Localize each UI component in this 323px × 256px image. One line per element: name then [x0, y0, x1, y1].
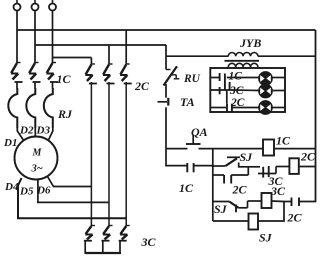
wire 2C-3C vertical b [108, 82, 110, 226]
wire L1 drop [16, 11, 18, 64]
wire control drop [165, 45, 167, 70]
wire rail L1 [17, 29, 316, 31]
contactor 3C main contact pole1 [84, 226, 95, 254]
transformer JYB primary [228, 52, 315, 56]
label SJ 2 [214, 202, 228, 216]
wire 2C drop c [125, 30, 127, 65]
label 1C latch [179, 181, 194, 195]
label D2 [19, 125, 34, 137]
wire SJ coil to node [258, 202, 284, 222]
svg-text:1C: 1C [229, 70, 243, 82]
wire motor lead D2 [34, 128, 36, 137]
svg-text:2C: 2C [300, 150, 316, 164]
label TA [180, 95, 195, 109]
thermal relay RJ heater 3 [44, 88, 53, 128]
svg-text:TA: TA [180, 95, 195, 109]
terminal L1 [14, 0, 21, 11]
contactor 2C main contact pole1 [85, 64, 97, 84]
svg-text:1C: 1C [276, 134, 291, 148]
label 3C interlock [268, 174, 284, 188]
svg-text:QA: QA [191, 125, 208, 139]
contact 3C interlock [258, 166, 276, 178]
coil 2C [289, 158, 298, 174]
contact 1C latch [187, 163, 213, 172]
svg-text:D3: D3 [36, 125, 51, 137]
wire rail L2 [35, 44, 166, 46]
svg-text:2C: 2C [230, 97, 245, 109]
wire rail L3 [53, 57, 92, 59]
label D5 [19, 186, 34, 198]
label 3C lamp row [229, 85, 244, 97]
svg-text:JYB: JYB [239, 36, 261, 50]
label D4 [4, 181, 19, 193]
contact 2C interlock [284, 198, 316, 207]
label 2C coil [300, 150, 316, 164]
wire L3 drop [52, 11, 54, 64]
fuse RU [164, 66, 180, 85]
contactor 1C main contact pole2 [29, 63, 41, 89]
contact TA [158, 98, 169, 106]
contact SJ delayed 1 [213, 157, 260, 167]
label 1C coil [276, 134, 291, 148]
svg-text:2C: 2C [134, 79, 150, 93]
svg-text:3C: 3C [141, 235, 157, 249]
svg-text:M: M [32, 148, 43, 159]
wire 2C drop b [108, 45, 110, 65]
contactor 3C main contact pole2 [102, 226, 113, 254]
wire TA-QA [165, 107, 167, 148]
svg-text:D2: D2 [19, 125, 34, 137]
label RU [183, 73, 201, 85]
indicator lamp 1 [259, 72, 272, 85]
contactor 3C main contact pole3 [119, 226, 130, 254]
label D1 [3, 137, 17, 149]
wire D6 row [48, 177, 92, 187]
label 2C main [134, 79, 150, 93]
label 1C lamp row [229, 70, 243, 82]
wire 2C-3C vertical c [125, 82, 127, 226]
indicator lamp 2 [259, 84, 272, 97]
label D6 [36, 185, 51, 197]
svg-text:SJ: SJ [214, 202, 228, 216]
contact 2C latch [213, 167, 249, 184]
wire L2 drop [34, 11, 36, 64]
label 1C main [57, 72, 72, 86]
wire 2C drop a [90, 58, 92, 65]
thermal relay RJ heater 1 [8, 88, 17, 128]
svg-text:3C: 3C [270, 184, 286, 198]
transformer JYB core [225, 60, 260, 62]
lamp row wire 1C [210, 77, 285, 79]
svg-text:RU: RU [183, 73, 201, 85]
terminal L2 [32, 0, 39, 11]
contactor 2C main contact pole2 [103, 64, 115, 84]
wire J1 to SJ coil [213, 220, 249, 222]
motor M [15, 137, 58, 180]
wire to 2C coil [276, 166, 289, 168]
wire star bus [85, 252, 122, 254]
svg-text:D1: D1 [3, 137, 17, 149]
svg-text:2C: 2C [232, 183, 248, 197]
lamp row wire 2C [210, 107, 285, 109]
svg-text:2C: 2C [287, 211, 303, 225]
transformer JYB secondary [228, 63, 258, 67]
wire 3C coil to node [272, 200, 285, 203]
contact SJ delayed 2 [213, 201, 248, 212]
wire latch corner [166, 149, 187, 166]
label RJ [57, 107, 73, 121]
contactor 1C main contact pole1 [11, 63, 23, 89]
wire motor lead D3 [48, 128, 53, 141]
wire 2C-3C vertical a [90, 82, 92, 226]
label 3C main [141, 235, 157, 249]
svg-text:SJ: SJ [259, 231, 273, 245]
contactor 1C main contact pole3 [46, 63, 58, 89]
coil 1C [263, 140, 274, 156]
label 2C lamp row [230, 97, 245, 109]
contact 3C lamp row [220, 82, 230, 94]
label D3 [36, 125, 51, 137]
contact 2C lamp row [227, 104, 232, 112]
indicator lamp 3 [259, 101, 272, 114]
svg-text:RJ: RJ [57, 107, 73, 121]
svg-text:3C: 3C [229, 85, 244, 97]
contact 1C lamp row [220, 73, 225, 90]
label 3C coil [270, 184, 286, 198]
lamp row wire 3C [210, 89, 285, 92]
wire fuse-TA [165, 84, 167, 98]
lamp panel inner link [226, 91, 228, 104]
svg-text:D5: D5 [19, 186, 34, 198]
wire transformer tap [166, 55, 229, 57]
svg-text:SJ: SJ [240, 150, 254, 164]
contactor 2C main contact pole3 [120, 64, 132, 84]
wire 2C coil to rail [299, 166, 316, 168]
wire junction J1 [212, 149, 214, 221]
svg-text:D4: D4 [4, 181, 19, 193]
svg-text:1C: 1C [179, 181, 194, 195]
wire 1C coil to rail [274, 148, 316, 150]
wire D5 row [38, 179, 109, 202]
label JYB [239, 36, 261, 50]
label SJ coil [259, 231, 273, 245]
lamp panel box [210, 68, 285, 112]
wire to 3C coil [248, 200, 262, 202]
pushbutton QA [166, 135, 263, 149]
label QA [191, 125, 208, 139]
label 2C interlock [287, 211, 303, 225]
wire right rail [315, 30, 317, 202]
label SJ 1 [240, 150, 254, 164]
terminal L3 [49, 0, 56, 11]
svg-text:1C: 1C [57, 72, 72, 86]
label 2C latch [232, 183, 248, 197]
coil SJ [249, 214, 259, 230]
wire D4 row [18, 178, 126, 218]
coil 3C [262, 193, 272, 208]
wire motor lead D1 [17, 128, 24, 141]
svg-text:3~: 3~ [31, 164, 43, 175]
thermal relay RJ heater 2 [26, 88, 35, 128]
